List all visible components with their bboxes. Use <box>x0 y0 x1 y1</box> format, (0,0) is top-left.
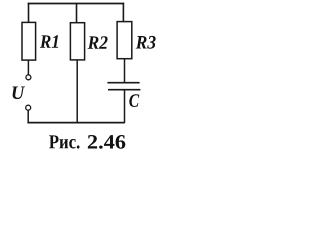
label R1 <box>40 35 58 48</box>
label R2 <box>88 36 108 49</box>
wire top rail <box>28 3 125 5</box>
wire R2 bottom to bottom rail <box>76 60 78 123</box>
label C <box>129 94 139 107</box>
wire bottom rail <box>27 122 124 124</box>
wire R3 bottom to capacitor <box>124 59 126 83</box>
wire drop from top rail to R3 <box>122 3 124 22</box>
wire left drop from top rail to R1 <box>28 3 30 23</box>
capacitor C top plate <box>107 82 139 84</box>
caption word Puc. <box>49 135 79 148</box>
capacitor C bottom plate <box>108 89 140 91</box>
wire drop from top rail to R2 <box>76 3 78 23</box>
terminal circle lower <box>26 105 31 110</box>
terminal circle upper <box>26 75 31 80</box>
wire R1 bottom to upper terminal <box>27 60 29 75</box>
resistor R2 <box>70 23 84 60</box>
caption number 2.46 <box>88 135 126 149</box>
label U <box>13 86 26 99</box>
wire lower terminal to bottom rail <box>27 110 29 123</box>
resistor R1 <box>22 22 36 60</box>
resistor R3 <box>117 22 132 59</box>
wire capacitor to bottom rail <box>124 90 126 123</box>
label R3 <box>136 36 156 49</box>
